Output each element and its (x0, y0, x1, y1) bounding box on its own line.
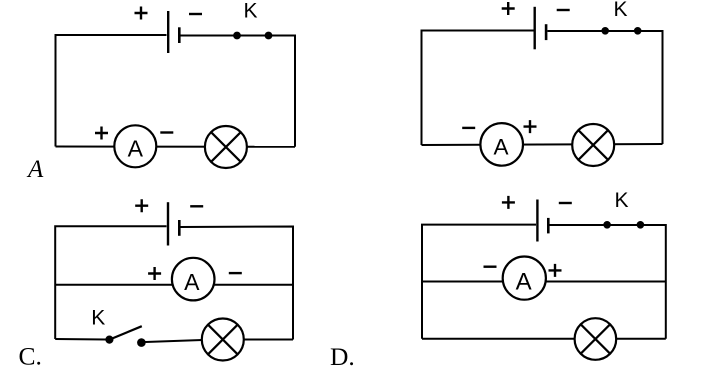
circuit D: left vertical and top-left wire (422, 225, 536, 339)
svg-text:K: K (614, 189, 628, 212)
circuit C: switch K left contact dot (105, 336, 113, 344)
circuit C: lamp L3 (202, 319, 244, 361)
circuit D: battery positive plate (long) (536, 200, 538, 242)
circuit B: bottom wire (422, 144, 663, 145)
circuit C: left vertical and top-left wire (55, 226, 166, 339)
circuit A: bottom wire (56, 146, 296, 148)
circuit C: wire lamp to right vertical (244, 339, 293, 341)
circuit B: wire battery to right vertical through switch (548, 31, 663, 144)
circuit D: middle branch wire (422, 281, 666, 283)
circuit A: battery − polarity label (189, 13, 202, 15)
circuit D: switch K right contact dot (637, 221, 645, 229)
circuit B: battery negative plate (short) (545, 24, 548, 40)
circuit C: battery negative plate (short) (178, 220, 181, 236)
circuit B: switch K left contact dot (601, 27, 609, 35)
circuit C: wire battery to right vertical (181, 227, 294, 340)
svg-text:K: K (613, 0, 627, 21)
circuit B: battery − polarity label (557, 9, 570, 11)
circuit D: switch K left contact dot (603, 221, 611, 229)
circuit C: battery + polarity label (135, 199, 148, 212)
circuit A: battery positive plate (long) (167, 11, 169, 53)
circuit D: battery − polarity label (559, 202, 572, 204)
circuit A: ammeter A1 circle (114, 125, 156, 167)
circuit C: ammeter − terminal label (229, 272, 242, 274)
circuit A: battery negative plate (short) (178, 27, 181, 43)
circuit D: ammeter − terminal label (484, 266, 497, 268)
circuit A: lamp L1 (205, 126, 247, 168)
circuit D: ammeter + terminal label (549, 264, 562, 277)
circuit B: ammeter − terminal label (462, 127, 475, 129)
circuit C: wire switch to lamp (146, 340, 203, 342)
circuit C: ammeter A3 circle (172, 258, 215, 301)
circuit D: lamp L4 (575, 318, 617, 360)
circuit B: switch K right contact dot (634, 27, 642, 35)
circuit C: middle branch wire (55, 284, 293, 286)
circuit A: left vertical and top-left wire (56, 35, 167, 147)
circuit B: lamp L2 (572, 124, 614, 166)
svg-text:A: A (26, 156, 44, 183)
circuit A: ammeter − terminal label (160, 131, 173, 133)
circuit C: switch K right contact dot (137, 338, 146, 347)
circuit C: battery positive plate (long) (167, 202, 169, 245)
circuit D: battery negative plate (short) (547, 218, 550, 234)
circuit D: battery + polarity label (502, 196, 515, 209)
svg-text:A: A (184, 269, 200, 295)
circuit A: wire battery to right vertical through switch (181, 36, 296, 147)
svg-text:A: A (128, 136, 144, 162)
circuit B: ammeter + terminal label (524, 120, 537, 133)
svg-text:A: A (493, 135, 508, 160)
circuit C: switch K open blade (109, 326, 141, 339)
svg-text:C.: C. (19, 342, 42, 371)
circuit D: bottom wire (422, 338, 666, 340)
circuit D: ammeter A4 circle (503, 257, 546, 300)
circuit C: battery − polarity label (190, 205, 203, 207)
circuit D: wire battery to right vertical through switch (550, 225, 666, 339)
svg-text:K: K (91, 307, 105, 330)
circuit A: switch K left contact dot (233, 32, 241, 40)
circuit B: ammeter A2 circle (480, 123, 523, 166)
circuit A: ammeter + terminal label (95, 127, 108, 140)
circuit B: battery + polarity label (502, 2, 515, 15)
svg-text:D.: D. (330, 342, 355, 371)
svg-text:A: A (516, 268, 532, 295)
circuit B: battery positive plate (long) (534, 7, 536, 50)
circuit C: ammeter + terminal label (148, 267, 161, 280)
circuit C: bottom wire left segment (55, 338, 106, 341)
circuit A: battery + polarity label (135, 7, 148, 20)
svg-text:K: K (243, 0, 257, 23)
circuit A: switch K right contact dot (265, 32, 273, 40)
circuit B: left vertical and top-left wire (422, 31, 534, 146)
